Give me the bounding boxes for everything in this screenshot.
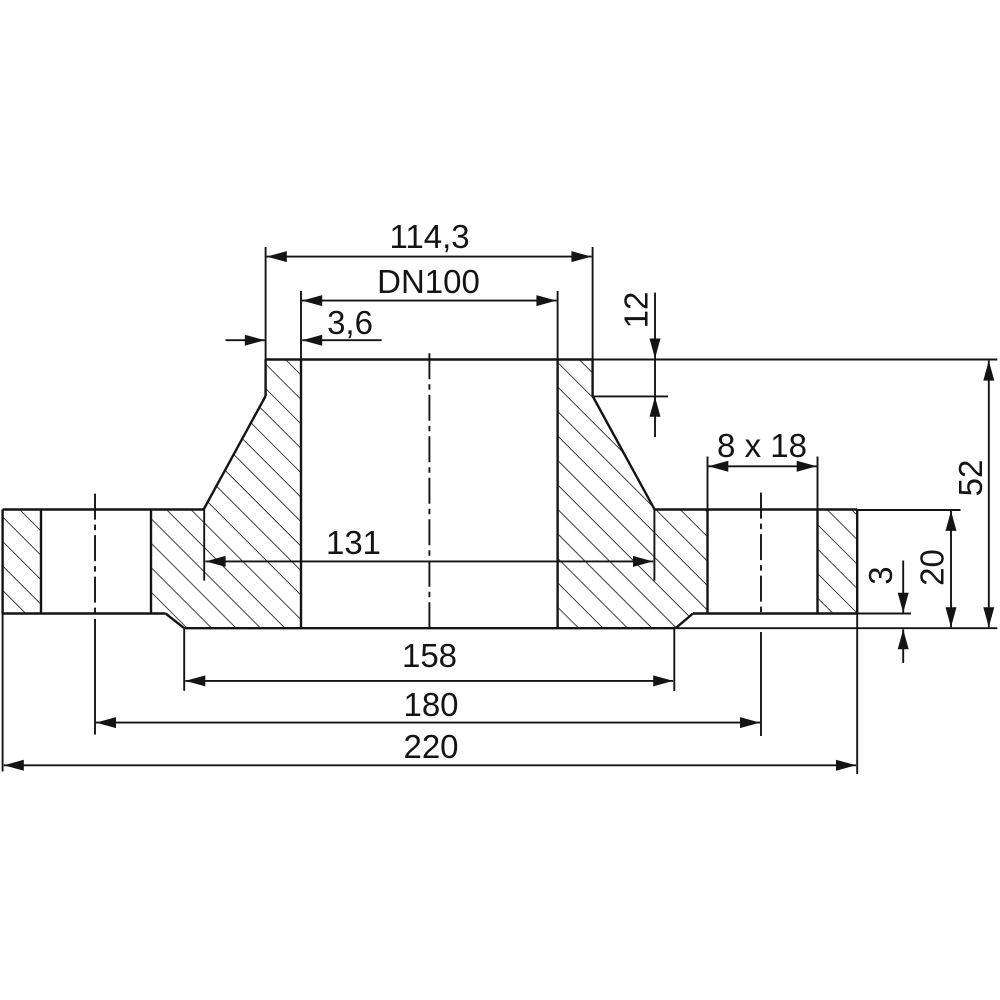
- dimension DN100: [301, 263, 558, 360]
- raised face bottom extension: [676, 627, 998, 629]
- neck top face: [266, 358, 593, 360]
- hatch left rim: [3, 510, 41, 614]
- dimension 158: [184, 629, 674, 691]
- center axis: [428, 353, 430, 628]
- chamfer right: [676, 614, 693, 629]
- flange top extension right: [857, 509, 960, 511]
- dimension 20: [914, 511, 957, 627]
- top face extension line: [593, 359, 998, 361]
- svg-text:12: 12: [618, 292, 655, 329]
- flange left edge extension: [2, 614, 4, 772]
- neck OD right: [591, 360, 593, 397]
- svg-text:3,6: 3,6: [327, 304, 373, 341]
- dimension 180: [96, 686, 760, 728]
- svg-text:DN100: DN100: [377, 263, 480, 300]
- right bolt centerline: [760, 493, 762, 616]
- flange top right: [655, 508, 858, 510]
- rim bottom left: [3, 612, 166, 614]
- flange left edge: [1, 510, 3, 614]
- right bolt hole right wall: [816, 510, 818, 614]
- svg-text:158: 158: [402, 637, 457, 674]
- rim bottom right: [693, 612, 857, 614]
- raised face bottom: [184, 627, 675, 629]
- dimension 52: [952, 361, 994, 628]
- svg-text:20: 20: [914, 549, 951, 586]
- flange top left: [3, 508, 204, 510]
- flange right edge extension: [856, 614, 858, 775]
- taper right: [593, 396, 655, 510]
- left bolt centerline: [94, 494, 96, 616]
- svg-text:114,3: 114,3: [390, 218, 470, 255]
- hatch right hub wall: [558, 360, 708, 629]
- hatch left hub wall: [151, 360, 301, 629]
- hatch right rim: [818, 510, 858, 614]
- chamfer left: [166, 614, 185, 629]
- dimension 3,6: [226, 304, 382, 346]
- svg-text:8 x 18: 8 x 18: [717, 427, 807, 464]
- dimension 12: [593, 292, 668, 437]
- right bolt hole left wall: [706, 510, 708, 614]
- dimension 220: [4, 728, 856, 771]
- bore right edge: [556, 360, 558, 629]
- flange right edge: [856, 510, 858, 614]
- svg-text:131: 131: [326, 524, 381, 561]
- rim bottom extension right: [857, 613, 911, 615]
- left bolt hole right wall: [150, 510, 152, 614]
- svg-text:52: 52: [952, 460, 989, 497]
- dimension 131: [204, 510, 654, 581]
- dimension 8 x 18: [708, 427, 818, 510]
- neck OD left: [264, 360, 266, 397]
- svg-text:180: 180: [403, 686, 458, 723]
- left bolt hole left wall: [40, 510, 42, 614]
- bore left edge: [300, 360, 302, 629]
- svg-text:3: 3: [862, 566, 899, 584]
- taper left: [204, 396, 266, 510]
- dimension 114,3: [266, 218, 593, 360]
- dimension 3: [862, 561, 909, 664]
- svg-text:220: 220: [403, 728, 458, 765]
